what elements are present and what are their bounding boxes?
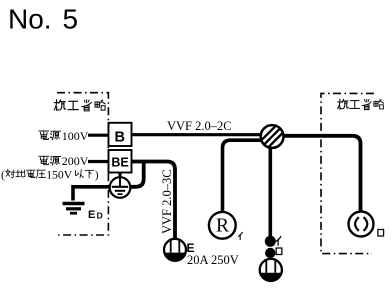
label E_D	[88, 209, 103, 221]
svg-text:R: R	[216, 216, 229, 237]
ground electrode symbol	[63, 204, 85, 214]
left box label 施工省略	[54, 100, 105, 111]
svg-text:): )	[95, 169, 99, 181]
breaker B box	[109, 123, 132, 146]
wire junction to lamp receptacle R	[223, 140, 262, 213]
svg-text:150V: 150V	[46, 168, 73, 181]
svg-text:B: B	[115, 130, 125, 146]
earth terminal circle (ET)	[110, 177, 131, 198]
wire BE to earth terminal (short vertical link)	[119, 173, 122, 179]
svg-text:VVF 2.0–2C: VVF 2.0–2C	[167, 119, 232, 133]
label ロ (switch)	[276, 248, 282, 254]
wire junction down to switches	[268, 147, 272, 237]
wire branch BE-output down-left into earth terminal	[131, 162, 144, 187]
wire 100V feed	[88, 134, 109, 137]
svg-text:(: (	[1, 169, 5, 181]
20A 250V outlet with earth (bottom filled)	[164, 239, 186, 261]
svg-text:D: D	[97, 210, 103, 220]
label ロ (rosette)	[378, 230, 384, 236]
junction box (hatched circle)	[261, 125, 284, 148]
title "No. 5"	[8, 3, 78, 34]
wire 200V feed	[88, 160, 109, 163]
svg-text:100V: 100V	[62, 129, 89, 143]
wire BE to 20A250V outlet (with corner)	[132, 162, 176, 240]
wire junction to ceiling rosette	[283, 136, 361, 212]
switch イ (dot)	[265, 236, 276, 247]
svg-text:E: E	[88, 209, 95, 221]
svg-text:VVF 2.0–3C: VVF 2.0–3C	[160, 169, 174, 234]
wire ET to ground electrode	[73, 187, 110, 201]
lamp receptacle R	[209, 212, 236, 239]
label 電源100V	[39, 129, 89, 143]
ceiling rosette (round)	[349, 212, 374, 237]
wire VVF2.0-2C: B to junction box	[132, 133, 262, 136]
svg-text:BE: BE	[111, 155, 128, 169]
label イ (for R)	[239, 232, 243, 239]
left dashed box (施工省略 construction-omitted area)	[57, 93, 108, 235]
svg-text:200V: 200V	[62, 154, 89, 168]
label イ (switch)	[276, 237, 281, 245]
switch ロ (dot)	[265, 248, 275, 258]
breaker BE box	[109, 150, 132, 173]
right box label 施工省略	[338, 99, 384, 109]
svg-text:5: 5	[63, 3, 79, 34]
label (対地電圧150V以下)	[1, 168, 99, 181]
right dashed box (construction omitted)	[321, 93, 374, 253]
svg-text:No.: No.	[8, 3, 52, 34]
wall outlet under switches (bottom filled)	[260, 259, 282, 281]
label 電源200V	[39, 154, 89, 168]
svg-text:20A 250V: 20A 250V	[187, 253, 239, 267]
